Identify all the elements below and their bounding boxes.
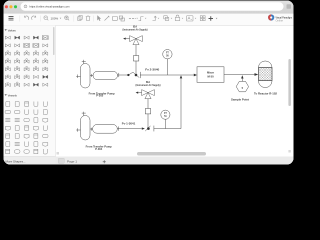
svg-text:To Reactor R-102: To Reactor R-102 — [254, 91, 278, 95]
svg-text:(Instrument Air Supply): (Instrument Air Supply) — [123, 29, 148, 32]
svg-text:(Instrument Air Supply): (Instrument Air Supply) — [136, 84, 161, 87]
svg-text:More Shapes...: More Shapes... — [6, 159, 26, 163]
svg-text:ISA: ISA — [133, 25, 137, 29]
svg-text:Valves: Valves — [8, 28, 16, 32]
svg-text:Fv-1-3041: Fv-1-3041 — [122, 123, 136, 126]
svg-text:Page 1: Page 1 — [67, 159, 77, 163]
svg-text:P-304: P-304 — [95, 147, 102, 151]
svg-text:Fv 2-3040: Fv 2-3040 — [145, 68, 160, 71]
svg-text:P-205: P-205 — [96, 94, 103, 98]
svg-text:Mixer: Mixer — [207, 71, 214, 75]
svg-text:https://online.visual-paradigm: https://online.visual-paradigm.com — [30, 5, 70, 9]
svg-text:ISA: ISA — [146, 80, 150, 84]
svg-text:Visual Paradigm: Visual Paradigm — [276, 15, 293, 19]
svg-text:Online: Online — [276, 19, 284, 23]
svg-text:100%: 100% — [51, 16, 59, 20]
svg-text:Vessels: Vessels — [8, 93, 17, 97]
svg-text:M-50: M-50 — [207, 75, 214, 79]
svg-text:Sample Point: Sample Point — [231, 98, 249, 102]
